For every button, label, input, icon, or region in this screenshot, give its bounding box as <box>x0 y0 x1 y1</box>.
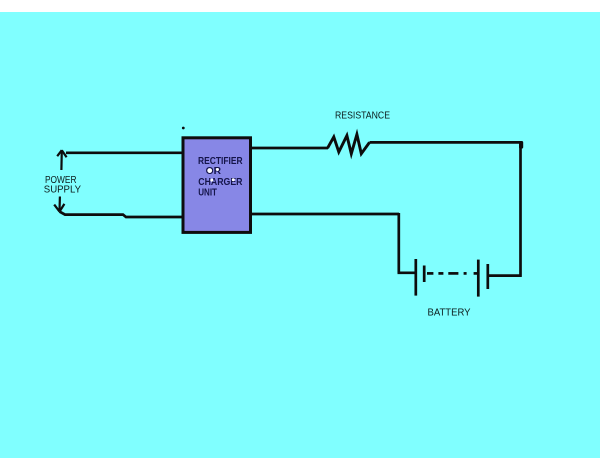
wire: right vertical drop to battery <box>519 142 522 277</box>
wire: power supply bottom lead to box (with small jog) <box>60 212 184 217</box>
box label: RECTIFIER OR CHARGER UNIT (white letter counters) <box>198 156 243 199</box>
node dot above box <box>182 127 185 130</box>
POWER SUPPLY label <box>44 175 81 195</box>
corner joint blob top-right <box>519 141 523 149</box>
battery dashed link between cells <box>427 272 478 275</box>
wire: stub to battery long plate <box>398 271 416 274</box>
svg-text:CHARGER: CHARGER <box>198 177 243 188</box>
svg-text:RECTIFIER: RECTIFIER <box>198 156 243 167</box>
svg-text:BATTERY: BATTERY <box>428 308 471 319</box>
battery cell 1 long plate <box>414 259 417 296</box>
wire: box bottom to battery corner <box>251 213 399 216</box>
down arrow (power supply negative lead) <box>54 197 64 212</box>
wire: box to resistor <box>251 147 328 150</box>
wire: battery to right vertical riser <box>489 274 522 277</box>
rectifier/charger unit box U1 <box>183 138 251 233</box>
svg-text:RESISTANCE: RESISTANCE <box>335 110 390 121</box>
battery cell 2 long plate <box>477 260 480 297</box>
battery cell 2 short plate <box>486 264 489 289</box>
wire: power supply top lead to box <box>66 151 183 154</box>
svg-text:UNIT: UNIT <box>198 187 217 198</box>
wire: resistor to top-right corner <box>370 141 522 144</box>
resistor R (RESISTANCE) zigzag <box>328 134 370 153</box>
wire: vertical down into battery <box>397 213 400 273</box>
up arrow (power supply positive lead) <box>57 150 66 170</box>
battery cell 1 short plate <box>423 266 426 283</box>
svg-text:SUPPLY: SUPPLY <box>44 185 81 196</box>
